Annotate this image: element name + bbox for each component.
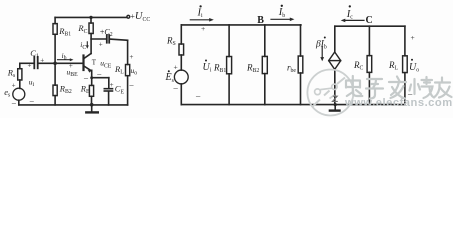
svg-text:+: +	[12, 82, 16, 90]
svg-text:–: –	[129, 80, 135, 89]
svg-text:Ic: Ic	[346, 9, 354, 21]
svg-text:+: +	[40, 56, 44, 64]
svg-text:RB2: RB2	[246, 63, 259, 75]
svg-text:RL: RL	[114, 64, 124, 76]
svg-text:–: –	[195, 90, 201, 100]
svg-text:uCE: uCE	[100, 59, 112, 70]
svg-text:+: +	[28, 62, 32, 70]
svg-text:www.elecfans.com: www.elecfans.com	[344, 97, 453, 109]
svg-text:RC: RC	[77, 23, 87, 35]
svg-text:iC: iC	[80, 40, 86, 51]
svg-text:+: +	[174, 62, 178, 71]
svg-text:–: –	[173, 83, 179, 93]
svg-text:es: es	[4, 87, 11, 99]
svg-text:–: –	[29, 96, 35, 105]
svg-text:+: +	[110, 81, 114, 89]
svg-text:RC: RC	[353, 60, 364, 72]
svg-text:+: +	[201, 24, 205, 33]
svg-text:βIb: βIb	[315, 40, 327, 51]
svg-text:Ib: Ib	[278, 7, 286, 19]
svg-text:+C2: +C2	[100, 27, 113, 38]
svg-text:Rs: Rs	[7, 68, 16, 80]
svg-text:Ui: Ui	[203, 62, 212, 74]
svg-text:CE: CE	[115, 84, 125, 96]
svg-text:RB2: RB2	[59, 84, 72, 96]
svg-text:ui: ui	[29, 78, 35, 89]
svg-text:uo: uo	[131, 66, 138, 77]
svg-text:T: T	[92, 58, 97, 66]
svg-text:Uo: Uo	[409, 62, 419, 74]
svg-text:+: +	[99, 40, 103, 48]
svg-text:RL: RL	[388, 60, 399, 72]
svg-text:B: B	[257, 15, 264, 26]
svg-text:C1: C1	[30, 48, 39, 60]
svg-text:C: C	[366, 15, 373, 26]
svg-text:RS: RS	[166, 36, 176, 48]
svg-text:rbe: rbe	[287, 63, 296, 75]
svg-text:+: +	[411, 33, 415, 42]
svg-text:Ii: Ii	[197, 7, 204, 19]
svg-text:–: –	[83, 73, 89, 82]
svg-text:+UCC: +UCC	[130, 11, 150, 23]
svg-text:RB1: RB1	[58, 26, 71, 38]
svg-text:+: +	[130, 53, 134, 61]
svg-text:RB1: RB1	[213, 63, 226, 75]
svg-text:RE: RE	[80, 83, 90, 95]
